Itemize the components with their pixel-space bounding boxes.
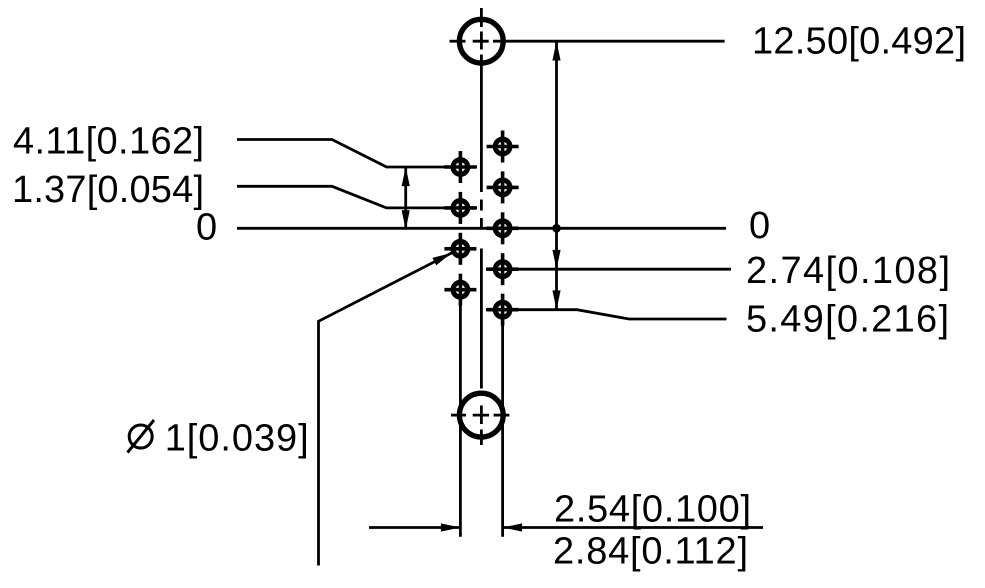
leader 4.11 xyxy=(237,140,477,168)
extension line left column xyxy=(459,290,462,537)
pin hole A1 xyxy=(444,151,476,183)
dimension 2.54/2.84 line left tail xyxy=(369,526,460,529)
extension line right column xyxy=(501,310,504,537)
dimension 2.74 line xyxy=(486,268,731,271)
pin hole B4 xyxy=(487,253,519,285)
dimension 12.50 line xyxy=(493,40,725,43)
pin hole B3 xyxy=(487,212,519,244)
arrowhead down mini dimension xyxy=(402,210,410,229)
pin hole A2 xyxy=(444,192,476,224)
arrowhead left bottom dimension xyxy=(503,523,522,531)
junction dot zero line xyxy=(552,224,561,233)
dimension 2.54/2.84 line right tail xyxy=(503,526,763,529)
svg-text:5.49[0.216]: 5.49[0.216] xyxy=(746,299,949,341)
pin hole B5 xyxy=(487,294,519,326)
arrowhead leader diameter callout xyxy=(432,253,452,265)
svg-text:2.84[0.112]: 2.84[0.112] xyxy=(553,531,748,573)
pin hole A3 xyxy=(444,233,476,265)
leader 1.37 xyxy=(237,186,477,208)
arrowhead up mini dimension xyxy=(402,167,410,186)
svg-text:2.74[0.108]: 2.74[0.108] xyxy=(746,250,950,292)
svg-text:1[0.039]: 1[0.039] xyxy=(165,418,309,460)
mini dimension line 4.11/1.37 xyxy=(404,167,407,229)
leader 5.49 xyxy=(486,310,727,319)
centerline vertical through mounting holes xyxy=(480,8,483,445)
dimension stack vertical line xyxy=(555,41,558,310)
mounting hole bottom xyxy=(459,393,503,437)
svg-text:0: 0 xyxy=(749,205,770,247)
diameter symbol xyxy=(128,420,155,453)
svg-text:1.37[0.054]: 1.37[0.054] xyxy=(12,169,204,211)
arrowhead down dimension 5.49 xyxy=(552,290,560,309)
leader diameter callout xyxy=(319,253,453,566)
centerline horizontal bottom mounting hole xyxy=(451,414,466,417)
pin hole B1 xyxy=(487,131,519,163)
pin hole B2 xyxy=(487,171,519,203)
mounting hole top xyxy=(459,19,503,63)
pin hole A4 xyxy=(444,274,476,306)
centerline horizontal top mounting hole xyxy=(450,40,466,43)
svg-text:12.50[0.492]: 12.50[0.492] xyxy=(752,21,966,63)
svg-text:4.11[0.162]: 4.11[0.162] xyxy=(13,121,204,163)
zero datum line xyxy=(237,227,726,230)
svg-text:0: 0 xyxy=(196,207,217,249)
arrowhead down dimension 2.74 xyxy=(552,250,560,269)
arrowhead right bottom dimension xyxy=(441,523,460,531)
svg-text:2.54[0.100]: 2.54[0.100] xyxy=(554,489,751,531)
arrowhead up dimension 12.50 xyxy=(552,41,560,60)
